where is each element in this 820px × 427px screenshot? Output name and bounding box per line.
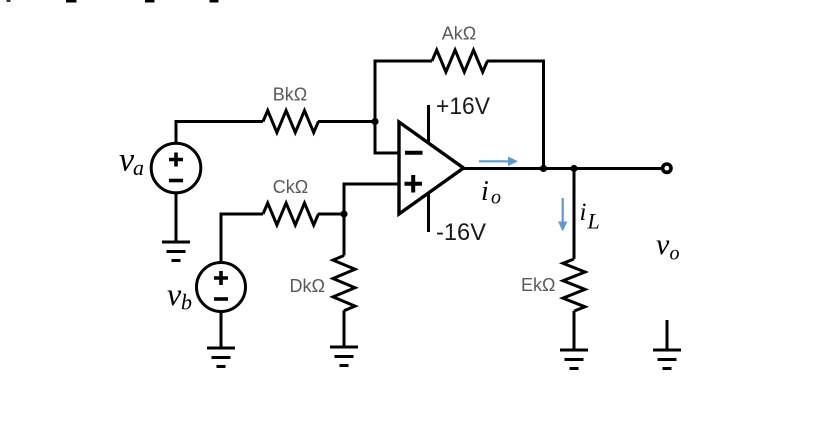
svg-text:o: o	[491, 187, 501, 209]
svg-text:AkΩ: AkΩ	[442, 24, 476, 44]
node: feedback tap dot on output	[540, 165, 547, 172]
svg-text:-16V: -16V	[436, 219, 486, 246]
wire: -16V supply lead	[427, 193, 430, 233]
wire: vb bottom lead	[220, 311, 223, 348]
label vo	[656, 228, 680, 265]
svg-text:CkΩ: CkΩ	[273, 177, 308, 197]
wire: EkΩ bottom lead	[573, 311, 576, 350]
ground (va)	[162, 242, 190, 261]
op-amp plus input symbol	[405, 175, 423, 193]
wire: load tap down to EkΩ	[573, 169, 576, 260]
svg-text:v: v	[656, 228, 670, 261]
ground (vo reference)	[653, 350, 681, 369]
label DkΩ	[290, 276, 325, 296]
label -16V	[436, 219, 486, 246]
wire: noninverting node down to DkΩ	[343, 214, 346, 256]
label AkΩ	[442, 24, 476, 44]
wire: feedback top right run and right riser down to output node	[487, 61, 544, 169]
node: inverting input junction dot	[371, 118, 378, 125]
resistor DkΩ (vertical zigzag)	[333, 256, 355, 311]
svg-text:i: i	[580, 199, 587, 226]
wire: CkΩ to noninverting node	[318, 213, 344, 216]
label CkΩ	[273, 177, 308, 197]
label iL	[580, 199, 600, 234]
ground (EkΩ)	[560, 350, 588, 369]
svg-text:BkΩ: BkΩ	[273, 85, 307, 105]
label +16V	[436, 93, 490, 120]
label BkΩ	[273, 85, 307, 105]
op-amp U1 triangle	[399, 122, 464, 214]
node: load tap dot on output	[570, 165, 577, 172]
wire: va top lead and horizontal to BkΩ	[176, 122, 263, 145]
current arrow iL (blue)	[558, 198, 567, 232]
resistor CkΩ (zigzag)	[263, 203, 318, 225]
svg-text:DkΩ: DkΩ	[290, 276, 325, 296]
ground (DkΩ)	[330, 347, 358, 366]
svg-text:+16V: +16V	[436, 93, 490, 120]
wire: vb top lead up and right to CkΩ	[221, 214, 263, 263]
wire: BkΩ to inverting node	[318, 120, 375, 123]
wire: inverting node down and into op-amp minus input	[375, 122, 399, 154]
wire: noninverting node up and into op-amp plus input	[344, 184, 399, 214]
wire: feedback loop left riser and top run	[375, 61, 432, 122]
ground (vb)	[207, 348, 235, 367]
svg-text:EkΩ: EkΩ	[521, 275, 555, 295]
svg-text:L: L	[587, 209, 600, 234]
wire: +16V supply lead	[427, 105, 430, 144]
svg-text:b: b	[181, 290, 192, 315]
wire: va bottom lead	[175, 193, 178, 243]
resistor BkΩ (zigzag)	[263, 111, 318, 133]
node: noninverting input junction dot	[340, 210, 347, 217]
terminal vo (open circle)	[663, 164, 671, 172]
svg-text:v: v	[167, 276, 182, 312]
voltage source vb	[197, 263, 246, 312]
label va	[119, 142, 144, 181]
svg-text:o: o	[670, 243, 680, 265]
label EkΩ	[521, 275, 555, 295]
label io	[481, 176, 501, 209]
resistor EkΩ (vertical zigzag)	[563, 259, 585, 311]
wire: vo reference ground stub	[666, 320, 669, 350]
svg-text:i: i	[481, 176, 489, 207]
current arrow io (blue)	[479, 157, 518, 167]
wire: DkΩ bottom lead	[343, 311, 346, 348]
label vb	[167, 276, 192, 315]
op-amp minus input symbol	[405, 151, 423, 155]
wire: op-amp output run to terminal	[464, 167, 664, 170]
cropped heading text at top edge	[7, 0, 219, 3]
voltage source va	[151, 143, 201, 193]
resistor AkΩ (feedback zigzag)	[432, 50, 487, 72]
svg-text:a: a	[133, 155, 144, 180]
